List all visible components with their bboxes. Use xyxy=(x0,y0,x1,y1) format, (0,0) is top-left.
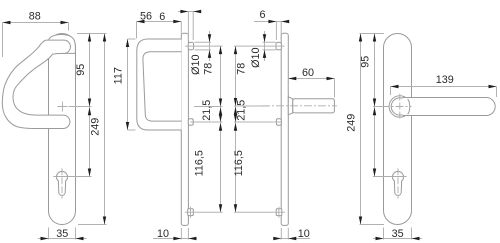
dim 139 D4 xyxy=(391,74,497,97)
top screw hole boss D2 xyxy=(185,42,195,49)
handle grip D1 xyxy=(2,40,70,128)
svg-text:21,5: 21,5 xyxy=(201,100,213,121)
backplate strip D3 xyxy=(281,33,288,225)
cylinder hole PZ D4 xyxy=(373,168,407,198)
svg-text:78: 78 xyxy=(235,63,247,75)
svg-text:6: 6 xyxy=(259,9,265,21)
pivot cross D1 xyxy=(57,102,67,112)
top screw hole boss D3 xyxy=(274,42,284,49)
svg-text:21,5: 21,5 xyxy=(235,100,247,121)
mid screw boss D2 xyxy=(188,119,198,126)
dim 116.5 D2 xyxy=(193,123,222,213)
dim 56 D2 xyxy=(137,11,182,39)
dim 95 D4 xyxy=(360,34,385,177)
dim 249 D1 xyxy=(78,34,107,225)
bottom screw head D2 xyxy=(185,207,197,218)
dim Ø10 D3 xyxy=(250,31,276,68)
svg-text:35: 35 xyxy=(392,228,404,240)
dim chain pivot-to-cylinder D4 xyxy=(373,107,376,176)
dim 21.5 D3 xyxy=(234,100,274,122)
dim 10 D3 xyxy=(273,228,310,240)
backplate D4 xyxy=(384,34,412,225)
dim Ø10 D2 xyxy=(190,31,211,75)
dim 35 D1 xyxy=(38,228,87,241)
svg-text:249: 249 xyxy=(346,114,358,132)
svg-text:10: 10 xyxy=(157,228,169,240)
svg-text:Ø10: Ø10 xyxy=(250,47,262,67)
svg-text:60: 60 xyxy=(302,67,314,79)
dim 6 D3 xyxy=(254,9,289,40)
dim 10 D2 xyxy=(153,228,197,240)
svg-text:6: 6 xyxy=(159,11,165,23)
knuckle D1 xyxy=(49,35,76,54)
bottom screw head D3 xyxy=(273,207,285,218)
dim 117 D2 xyxy=(113,39,136,130)
spindle shaft D3 xyxy=(262,99,337,113)
centerlines D4 xyxy=(382,94,412,120)
svg-text:35: 35 xyxy=(56,228,68,240)
backplate D1 xyxy=(49,34,76,225)
dim 78 D2 xyxy=(194,46,223,212)
mid screw boss D3 xyxy=(274,119,282,126)
svg-text:116,5: 116,5 xyxy=(193,150,205,176)
dim 249 D4 xyxy=(346,34,384,225)
svg-text:Ø10: Ø10 xyxy=(190,54,202,74)
dim 88 D1 xyxy=(3,11,69,58)
lever grip D4 xyxy=(403,98,496,116)
spindle collar D3 xyxy=(288,97,293,115)
backplate strip D2 xyxy=(181,33,188,225)
dim 95 D1 xyxy=(69,34,107,177)
lever grip side D2 xyxy=(137,39,182,130)
dim 21.5 D2 xyxy=(197,100,223,122)
svg-text:56: 56 xyxy=(140,11,152,23)
svg-text:95: 95 xyxy=(360,56,372,68)
dim 6 D2 xyxy=(159,10,201,40)
dim 116.5 D3 xyxy=(233,123,273,213)
svg-text:139: 139 xyxy=(436,74,454,86)
svg-text:88: 88 xyxy=(29,11,41,23)
svg-text:10: 10 xyxy=(298,228,310,240)
dim 35 D4 xyxy=(373,228,422,241)
svg-text:117: 117 xyxy=(113,67,125,84)
cylinder hole PZ D1 xyxy=(53,168,91,198)
lever neck D4 xyxy=(389,96,410,117)
svg-text:78: 78 xyxy=(203,63,215,75)
dim chain pivot-to-cylinder D1 xyxy=(88,107,91,176)
dim 60 D3 xyxy=(288,67,334,98)
svg-text:249: 249 xyxy=(90,118,102,136)
svg-text:95: 95 xyxy=(75,64,87,76)
dim 78 D3 xyxy=(234,46,275,212)
svg-text:116,5: 116,5 xyxy=(233,150,245,176)
